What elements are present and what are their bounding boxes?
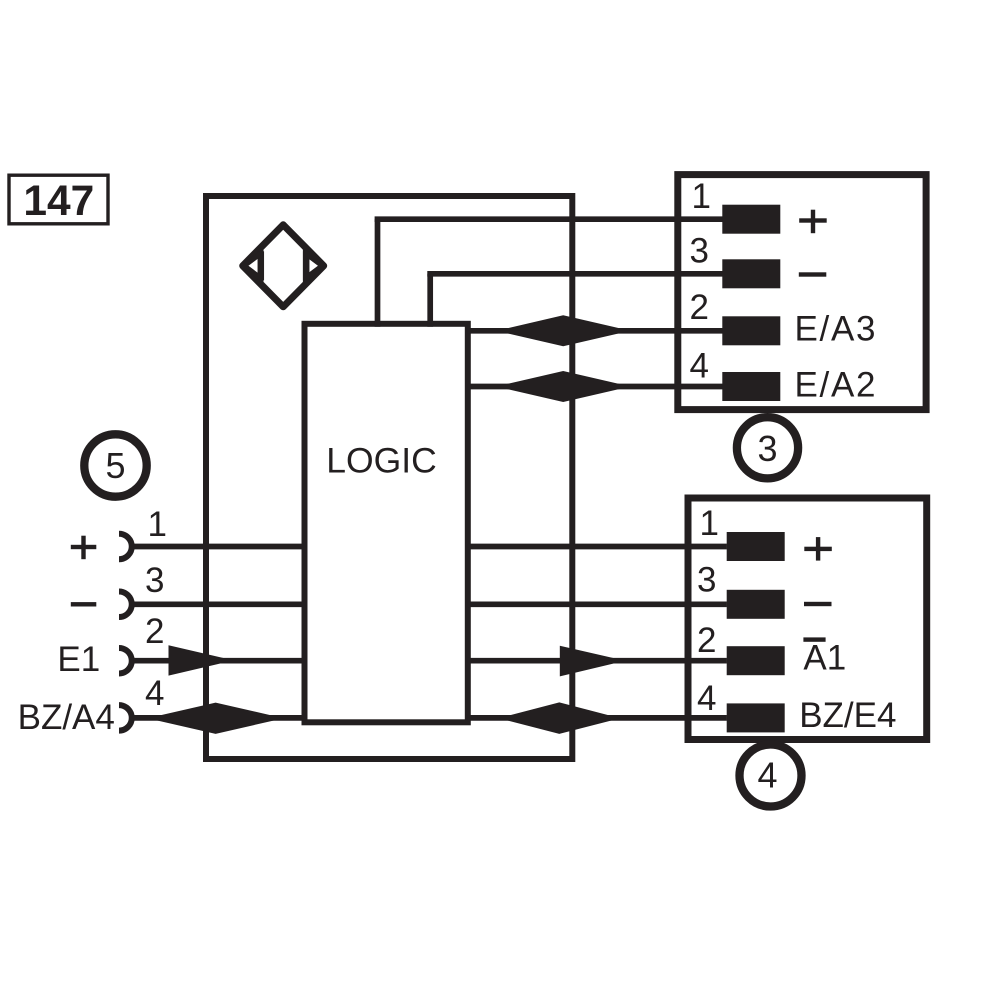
- svg-text:5: 5: [105, 445, 125, 486]
- input arrow on E1 wire: [169, 645, 234, 675]
- svg-text:1: 1: [700, 504, 719, 543]
- left pin 2 wire: [133, 658, 305, 664]
- connector 4 pin 1 label +: [804, 537, 832, 561]
- wire logic-top to connector3 pin1 (horizontal): [375, 216, 723, 222]
- left pin 4 terminal arc: [119, 705, 132, 731]
- connector 3 pin 1 label +: [799, 210, 827, 234]
- connector 4 pin 1 contact: [727, 532, 785, 561]
- connector 3 pin 4 contact: [722, 372, 780, 401]
- figure number box 147: [9, 175, 108, 225]
- wire logic-top to connector3 pin3 (horizontal): [427, 271, 722, 277]
- left pin 3 label minus: [71, 602, 97, 606]
- wire logic to connector4 pin4 BZ/E4: [468, 715, 727, 721]
- svg-text:4: 4: [757, 755, 777, 796]
- svg-text:LOGIC: LOGIC: [326, 441, 436, 481]
- logic block: [305, 324, 468, 723]
- connector 4 pin 4 contact: [727, 703, 785, 732]
- connector 3 circle label: [737, 417, 798, 478]
- circle label 5: [84, 434, 146, 496]
- svg-text:E/A3: E/A3: [795, 310, 878, 349]
- svg-text:A1: A1: [803, 638, 846, 677]
- sensor outer box: [206, 196, 572, 759]
- connector 3 pin 2 contact: [722, 316, 780, 345]
- svg-text:2: 2: [145, 612, 164, 651]
- wire logic to connector3 pin2 E/A3: [468, 328, 723, 334]
- svg-text:2: 2: [697, 621, 716, 660]
- wire logic to connector4 pin3: [468, 601, 727, 607]
- left pin 4 wire: [133, 715, 307, 721]
- svg-text:4: 4: [697, 679, 716, 718]
- svg-text:3: 3: [757, 428, 777, 469]
- bidirectional diamond on E/A3 wire: [496, 315, 630, 346]
- left pin 3 wire: [133, 601, 305, 607]
- svg-text:147: 147: [23, 178, 94, 225]
- svg-text:4: 4: [145, 674, 164, 713]
- connector 4 pin 2 contact: [727, 646, 785, 675]
- connector 3 pin 3 label minus: [799, 272, 827, 276]
- connector 4 pin 2 label A1 with overbar: [803, 637, 846, 677]
- left pin 1 wire: [133, 544, 305, 550]
- svg-text:E/A2: E/A2: [795, 366, 878, 405]
- left pin 1 terminal arc: [119, 534, 132, 560]
- connector 4 box: [688, 498, 927, 740]
- left pin 1 label +: [71, 536, 97, 560]
- sensor symbol diamond: [243, 225, 324, 307]
- connector 4 circle label: [740, 745, 802, 807]
- connector 3 pin 3 contact: [722, 259, 780, 288]
- svg-text:2: 2: [690, 288, 709, 327]
- svg-text:1: 1: [148, 505, 167, 544]
- wire logic-top to connector3 pin1 (vertical): [375, 219, 381, 327]
- svg-text:3: 3: [697, 561, 716, 600]
- bidirectional diamond on BZ/A4 wire: [147, 703, 283, 734]
- wire logic to connector4 pin2 A1: [468, 658, 727, 664]
- svg-text:3: 3: [690, 231, 709, 270]
- output arrow on A1 wire: [560, 646, 625, 677]
- bidirectional diamond on E/A2 wire: [496, 371, 630, 402]
- connector 3 box: [678, 175, 926, 410]
- svg-text:3: 3: [145, 561, 164, 600]
- svg-text:1: 1: [692, 177, 711, 216]
- svg-text:BZ/E4: BZ/E4: [799, 696, 896, 735]
- wire logic-top to connector3 pin3 (vertical): [427, 274, 433, 327]
- wire logic to connector3 pin4 E/A2: [468, 384, 723, 390]
- left pin 2 terminal arc: [119, 648, 132, 674]
- svg-text:E1: E1: [57, 640, 100, 679]
- wire logic to connector4 pin1: [468, 544, 727, 550]
- connector 3 pin 1 contact: [722, 205, 780, 234]
- connector 4 pin 3 label minus: [804, 602, 832, 606]
- bidirectional diamond on BZ/E4 wire: [498, 702, 620, 734]
- svg-text:BZ/A4: BZ/A4: [18, 698, 115, 737]
- svg-text:4: 4: [690, 347, 709, 386]
- connector 4 pin 3 contact: [727, 590, 785, 619]
- left pin 3 terminal arc: [119, 592, 132, 618]
